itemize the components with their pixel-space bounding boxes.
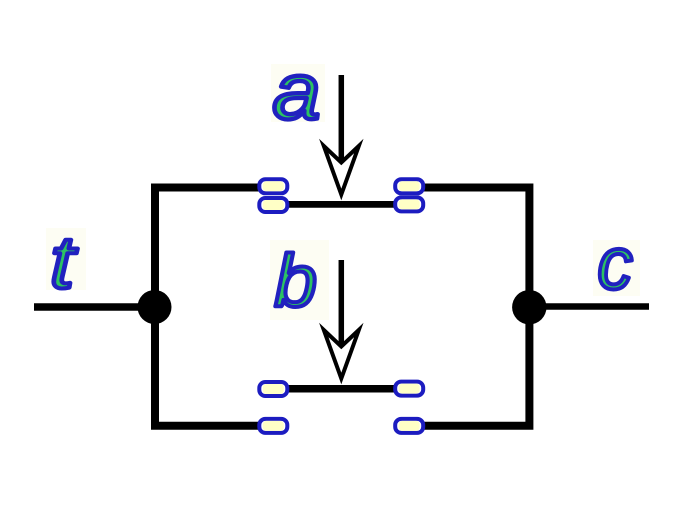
svg-text:b: b bbox=[274, 240, 317, 322]
wire: left branch (top-left, left vertical, bottom-left) bbox=[155, 188, 273, 426]
label t halo bbox=[46, 228, 86, 290]
contact b right fixed pad bbox=[395, 419, 423, 433]
contact a left fixed pad bbox=[259, 179, 287, 193]
contact a right moving pad bbox=[395, 197, 423, 211]
label t bbox=[50, 222, 78, 304]
wire: right branch (top-right, right vertical, bottom-right) bbox=[409, 188, 529, 426]
wire: contact b moving bar (open, lifted) bbox=[273, 385, 409, 393]
wire: left lead from t bbox=[34, 303, 155, 311]
arrow b head bbox=[324, 330, 359, 379]
wire: contact a moving bar (closed) bbox=[273, 201, 409, 208]
svg-text:t: t bbox=[50, 222, 78, 304]
label a bbox=[273, 46, 321, 135]
label c bbox=[597, 223, 632, 305]
contact b left moving pad bbox=[259, 382, 287, 396]
node t junction bbox=[138, 290, 172, 324]
contact b right moving pad bbox=[395, 382, 423, 396]
label c halo bbox=[593, 240, 640, 296]
node c junction bbox=[512, 290, 546, 324]
contact b left fixed pad bbox=[259, 419, 287, 433]
contact a left moving pad bbox=[259, 198, 287, 212]
svg-text:a: a bbox=[273, 46, 321, 135]
arrow a head bbox=[324, 146, 359, 195]
wire: right lead to c bbox=[529, 303, 649, 310]
contact a right fixed pad bbox=[395, 179, 423, 193]
arrow a stem bbox=[339, 75, 345, 162]
label b halo bbox=[270, 240, 329, 320]
label a halo bbox=[271, 64, 325, 122]
arrow b stem bbox=[339, 260, 345, 346]
svg-text:c: c bbox=[597, 223, 632, 305]
label b bbox=[274, 240, 317, 322]
